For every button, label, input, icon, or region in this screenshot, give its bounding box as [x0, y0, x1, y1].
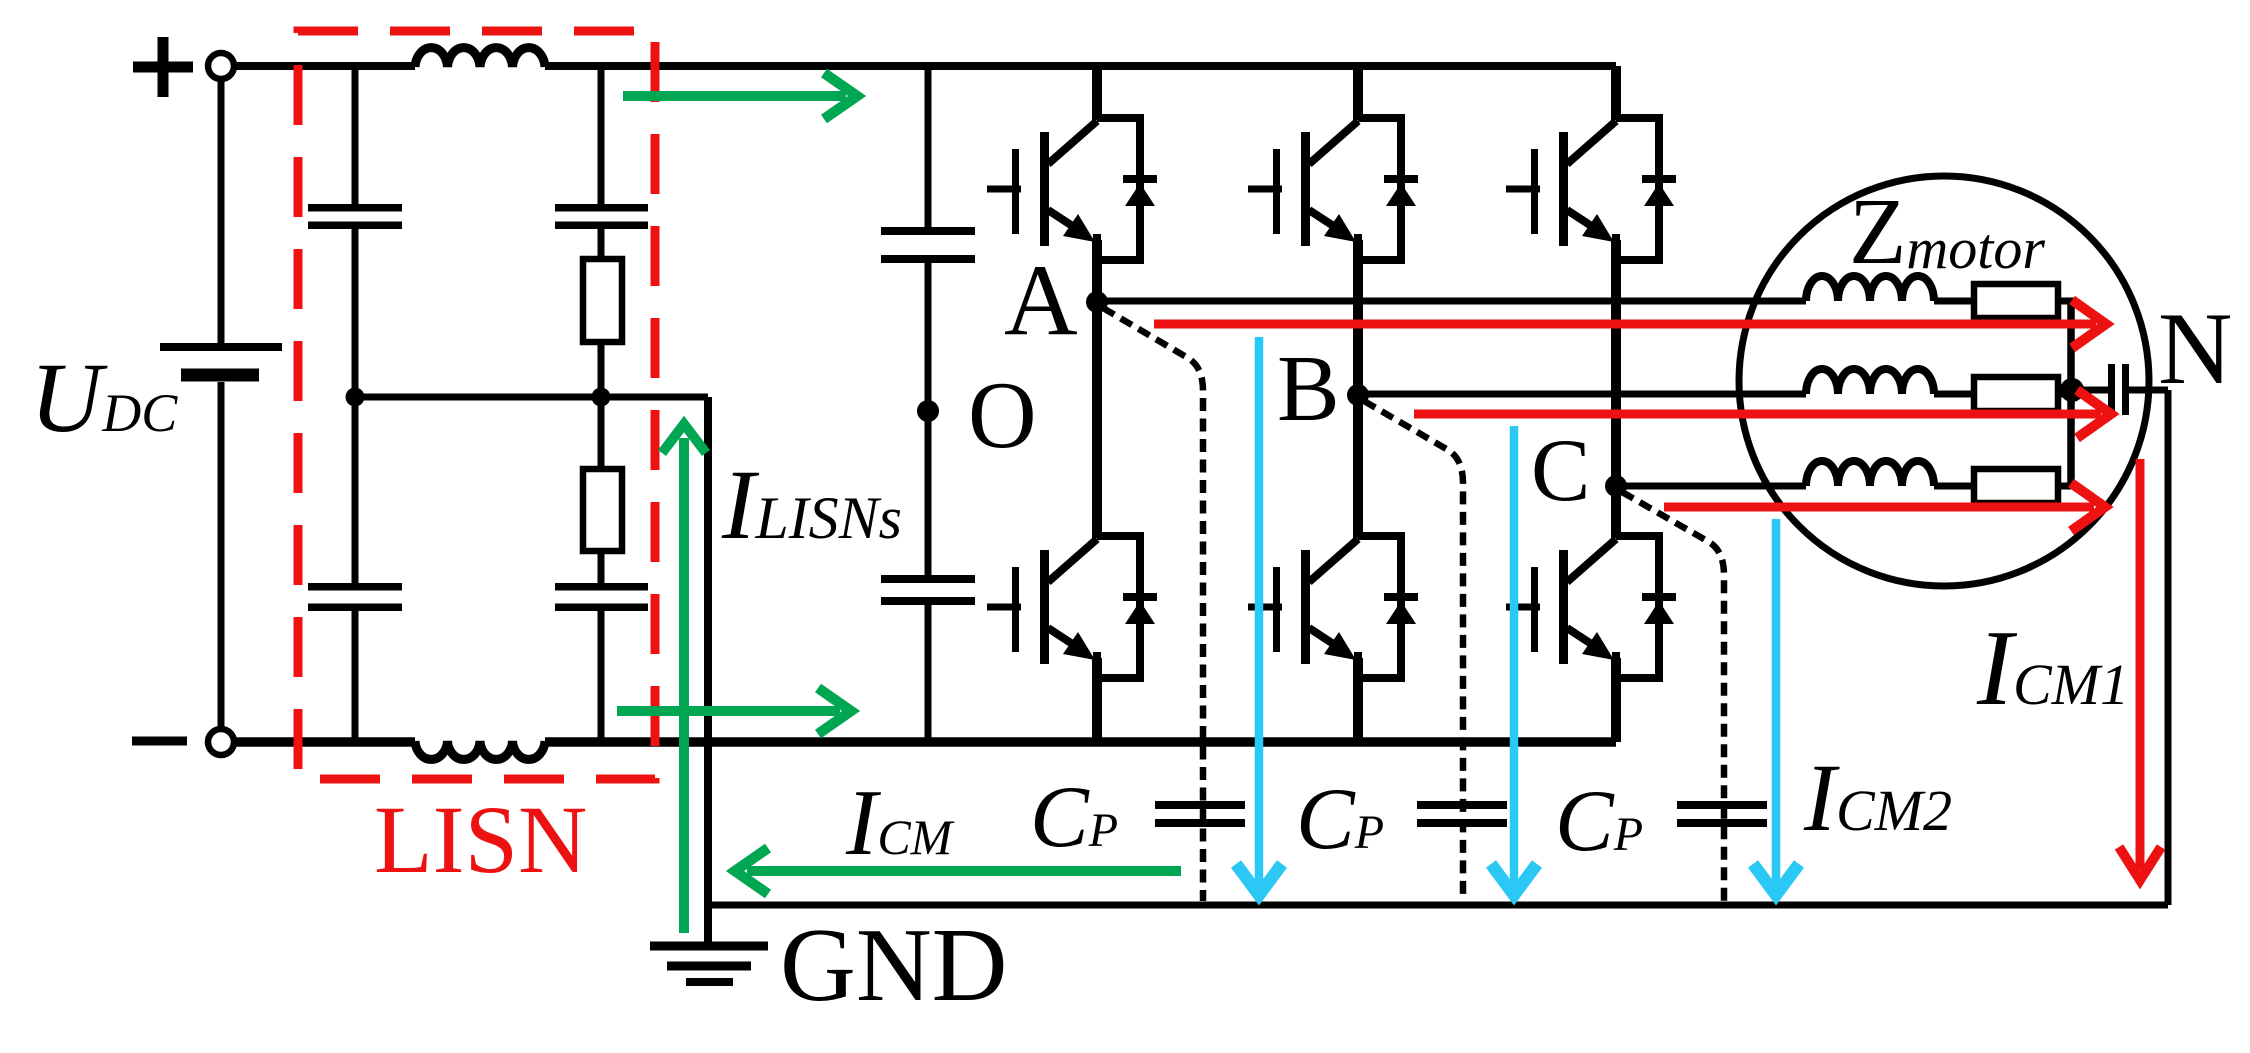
- wire motor star bus: [2067, 301, 2075, 486]
- leg A rail lower: [1092, 658, 1102, 742]
- svg-text:O: O: [968, 362, 1037, 468]
- svg-text:B: B: [1277, 337, 1340, 441]
- leg B rail upper: [1353, 66, 1363, 120]
- LISN box (red dashed): [298, 31, 655, 779]
- svg-text:GND: GND: [780, 906, 1007, 1023]
- capacitor DC-link lower: [881, 575, 975, 605]
- motor circle: [1739, 176, 2149, 586]
- wire phase A: [1097, 298, 2074, 305]
- capacitor CP2: [1417, 801, 1507, 827]
- svg-text:N: N: [2158, 292, 2232, 406]
- red arrow phase A current: [1154, 300, 2106, 348]
- LISN branch 2 wire middle: [598, 342, 605, 469]
- plus terminal label: [133, 37, 193, 97]
- node B: [1347, 384, 1369, 406]
- battery U_DC: [160, 80, 282, 728]
- wire capacitor to N corner: [2129, 390, 2168, 905]
- IGBT S3 with diode: [1506, 118, 1676, 260]
- DC-link wire middle: [925, 263, 932, 575]
- node LISN mid 1: [346, 388, 365, 407]
- green arrow I_CM: [735, 848, 1181, 894]
- resistor motor A: [1974, 284, 2058, 318]
- wire phase C: [1616, 483, 2074, 490]
- green arrow LISN top: [623, 73, 857, 119]
- LISN branch 1 wire lower: [352, 397, 359, 742]
- green arrow LISN bottom: [617, 688, 851, 734]
- minus terminal label: [132, 737, 187, 746]
- wire ground bus: [708, 902, 2168, 909]
- capacitor LISN C3: [555, 204, 648, 229]
- inductor motor A: [1806, 276, 1934, 301]
- node A: [1086, 291, 1108, 313]
- node C: [1605, 475, 1627, 497]
- node star point: [2060, 378, 2084, 402]
- capacitor LISN C4: [555, 583, 648, 611]
- wire negative bus: [234, 737, 1616, 747]
- inductor LISN bottom: [415, 741, 545, 759]
- IGBT S2 with diode: [1248, 118, 1418, 260]
- capacitor LISN C1: [308, 204, 402, 229]
- wire ground stem: [704, 397, 712, 944]
- leg C rail mid: [1611, 240, 1621, 538]
- IGBT S5 with diode: [1248, 536, 1418, 678]
- wire phase B: [1358, 391, 2074, 398]
- dashed parasitic path B: [1364, 401, 1463, 901]
- cyan arrow phase C: [1753, 519, 1799, 895]
- leg C rail lower: [1611, 658, 1621, 742]
- node O: [917, 400, 939, 422]
- cyan arrow phase B: [1491, 426, 1537, 895]
- wire star to capacitor: [2071, 387, 2108, 394]
- svg-text:LISN: LISN: [374, 786, 587, 893]
- node LISN mid 2: [592, 388, 611, 407]
- IGBT S6 with diode: [1506, 536, 1676, 678]
- inductor motor B: [1806, 369, 1934, 394]
- dashed parasitic path C: [1622, 492, 1724, 901]
- svg-text:C: C: [1531, 422, 1590, 520]
- IGBT S1 with diode: [987, 118, 1157, 260]
- leg A rail mid: [1092, 240, 1102, 538]
- LISN branch 2 wire lower: [598, 551, 605, 742]
- LISN branch 1 wire upper: [352, 66, 359, 397]
- capacitor neutral: [2108, 364, 2129, 415]
- red arrow I_CM1: [2119, 459, 2161, 880]
- DC-link wire lower: [925, 605, 932, 742]
- capacitor LISN C2: [308, 583, 402, 611]
- resistor LISN R1: [583, 259, 622, 342]
- positive terminal node: [208, 53, 234, 79]
- IGBT S4 with diode: [987, 536, 1157, 678]
- resistor motor C: [1974, 469, 2058, 503]
- capacitor DC-link upper: [881, 227, 975, 263]
- inductor LISN top: [415, 48, 545, 67]
- leg A rail upper: [1092, 66, 1102, 120]
- ground symbol: [650, 946, 768, 982]
- capacitor CP1: [1155, 801, 1245, 827]
- svg-text:A: A: [1004, 244, 1078, 357]
- green arrow I_LISNs vertical: [662, 424, 706, 933]
- leg B rail mid: [1353, 240, 1363, 538]
- resistor motor B: [1974, 377, 2058, 411]
- inductor motor C: [1806, 461, 1934, 486]
- resistor LISN R2: [583, 469, 622, 551]
- capacitor CP3: [1677, 801, 1767, 827]
- leg C rail upper: [1611, 66, 1621, 120]
- DC-link wire upper: [925, 66, 932, 227]
- wire LISN middle to ground stem: [355, 394, 708, 401]
- wire top bus: [234, 62, 1616, 70]
- red arrow phase B current: [1414, 390, 2111, 438]
- dashed parasitic path A: [1103, 308, 1203, 901]
- cyan arrow phase A: [1236, 337, 1282, 895]
- red arrow phase C current: [1664, 483, 2105, 531]
- LISN branch 2 wire upper: [598, 66, 605, 259]
- leg B rail lower: [1353, 658, 1363, 742]
- negative terminal node: [208, 729, 234, 755]
